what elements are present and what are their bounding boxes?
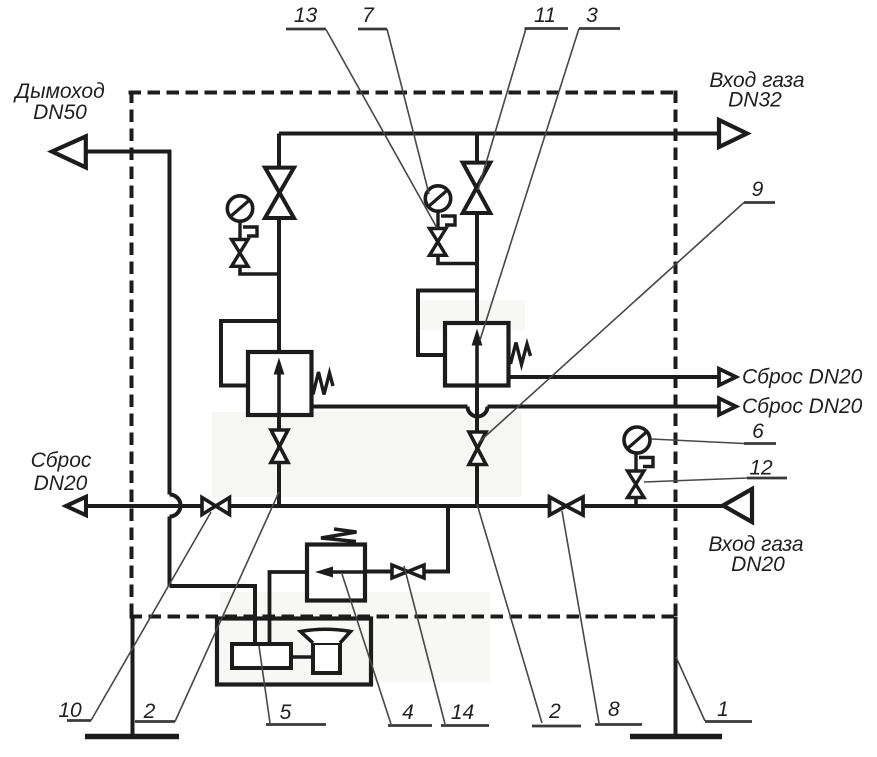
gauge tie-in wire right	[438, 255, 477, 263]
svg-text:DN20: DN20	[731, 553, 785, 576]
bleed valve below regulator left	[271, 430, 288, 463]
right branch pipe upper	[475, 134, 479, 324]
gauge cock flag left	[243, 227, 257, 236]
svg-text:1: 1	[717, 698, 729, 721]
gas inlet DN32 arrow	[719, 120, 747, 147]
pilot loop of regulator left	[221, 321, 279, 386]
left branch pipe upper	[277, 134, 281, 353]
svg-text:4: 4	[402, 701, 414, 724]
svg-text:Сброс: Сброс	[31, 449, 92, 472]
upper header pipe	[279, 132, 719, 136]
leader 12	[644, 478, 747, 482]
relief DN20 arrow lower	[719, 398, 736, 414]
solenoid outlet wire to control	[270, 572, 308, 646]
svg-text:2: 2	[143, 700, 156, 723]
solenoid valve spring	[321, 529, 357, 542]
leader 8	[562, 511, 599, 723]
flue pipe vertical upper	[168, 150, 172, 495]
pilot loop of regulator right	[418, 291, 477, 356]
svg-text:14: 14	[451, 701, 474, 724]
enclosure dashed border right	[674, 93, 678, 617]
valve 14	[392, 565, 424, 578]
burner enclosure box	[217, 619, 371, 685]
svg-text:Сброс DN20: Сброс DN20	[742, 395, 863, 418]
svg-text:13: 13	[294, 4, 318, 27]
solenoid internal arrow	[315, 567, 365, 578]
faint scan wash upper-mid	[420, 300, 525, 330]
valve on left branch	[265, 168, 294, 218]
valve 10 on relief manifold	[202, 498, 230, 515]
ground bar left	[85, 734, 179, 740]
right branch pipe below regulator	[475, 386, 479, 507]
svg-text:8: 8	[608, 698, 620, 721]
enclosure dashed border bottom	[132, 615, 676, 619]
main gas manifold pipe	[86, 504, 723, 508]
leader 13	[326, 30, 437, 229]
pressure gauge on right branch	[425, 186, 450, 229]
burner horn	[301, 629, 351, 643]
regulator left internal flow arrow	[274, 358, 285, 416]
leader 7	[387, 29, 429, 194]
svg-text:5: 5	[280, 701, 292, 724]
gauge valve 12	[628, 471, 645, 498]
faint scan wash middle	[212, 412, 522, 497]
svg-text:Дымоход: Дымоход	[13, 80, 104, 103]
svg-text:2: 2	[548, 700, 561, 723]
pipe valve14 to solenoid	[365, 570, 392, 574]
gauge cock flag right	[441, 216, 455, 225]
inlet gauge assembly stem	[634, 497, 638, 506]
svg-text:3: 3	[586, 4, 598, 27]
regulator left spring	[313, 372, 333, 395]
bleed valve below regulator right	[469, 432, 486, 465]
svg-text:12: 12	[749, 457, 773, 480]
ground bar right	[630, 734, 722, 740]
gauge tie-in wire left	[240, 266, 279, 274]
svg-text:6: 6	[752, 420, 764, 443]
gauge valve right branch	[430, 229, 447, 256]
solenoid valve body	[307, 545, 365, 601]
svg-text:9: 9	[752, 178, 764, 201]
left branch pipe below regulator	[277, 415, 281, 506]
svg-text:DN20: DN20	[34, 472, 88, 495]
regulator right spring	[511, 343, 531, 365]
relief DN20 label left	[31, 449, 92, 495]
flue label	[13, 80, 104, 124]
leader 6	[651, 439, 744, 444]
relief DN20 arrow upper	[719, 369, 736, 385]
leader 10	[91, 512, 211, 721]
svg-text:DN32: DN32	[728, 89, 782, 112]
gauge valve left branch	[232, 240, 249, 267]
wire to burner box	[170, 586, 256, 646]
svg-text:Сброс DN20: Сброс DN20	[742, 366, 863, 389]
regulator right internal flow arrow	[472, 329, 483, 386]
leader underlines	[67, 29, 787, 727]
leader 2 left	[175, 492, 279, 722]
svg-text:10: 10	[58, 699, 82, 722]
gauge cock flag 12	[639, 458, 653, 467]
gas inlet DN20 arrow	[723, 489, 752, 522]
gas inlet DN20 label	[708, 533, 803, 576]
svg-text:DN50: DN50	[33, 101, 87, 124]
regulator right body	[445, 323, 509, 386]
regulator left body	[248, 352, 312, 415]
leader 1	[676, 657, 705, 721]
relief line lower (from left regulator)	[312, 407, 720, 417]
leader 5	[259, 646, 270, 723]
gas inlet DN32 label	[709, 69, 804, 112]
right border solid continuation	[674, 617, 678, 735]
leader 11	[478, 29, 526, 191]
valve on right branch	[463, 163, 491, 213]
leader 4	[342, 574, 391, 724]
flue pipe hop over main line	[170, 495, 181, 517]
leader lines	[91, 29, 747, 725]
leader 2 right	[477, 504, 542, 723]
pressure gauge on left branch	[227, 196, 252, 240]
burner body	[313, 643, 340, 673]
enclosure dashed border left	[130, 93, 134, 617]
control unit 5	[232, 644, 291, 668]
svg-text:11: 11	[534, 4, 556, 27]
relief outlet arrow left	[66, 497, 86, 515]
relief line upper (from right regulator)	[509, 375, 720, 379]
solenoid riser pipe	[424, 506, 448, 572]
control to burner wire	[291, 655, 313, 659]
flue arrow	[52, 136, 86, 167]
valve 8 on inlet manifold	[550, 497, 584, 515]
flue pipe vertical lower	[168, 517, 172, 587]
faint scan wash lower	[220, 592, 490, 682]
svg-text:7: 7	[362, 4, 375, 27]
leader 14	[404, 566, 445, 724]
pressure gauge 6	[624, 427, 650, 471]
enclosure dashed border top	[131, 91, 676, 95]
flue pipe horizontal	[86, 150, 170, 154]
leader 3	[480, 29, 579, 341]
item numbers	[58, 4, 773, 724]
leader 9	[479, 203, 744, 443]
left border solid continuation	[131, 617, 135, 735]
